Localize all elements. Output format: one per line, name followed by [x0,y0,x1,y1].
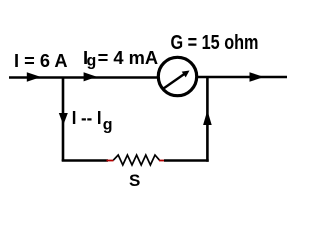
arrowhead output right [250,72,265,82]
svg-text:= 4 mA: = 4 mA [98,47,159,68]
arrowhead current I-Ig downward [59,113,68,125]
wire top-left segment [9,76,158,79]
wire top-right segment [198,76,288,79]
galvanometer needle [164,74,186,89]
resistor S zigzag [113,155,159,165]
svg-text:S: S [129,171,140,190]
wire left vertical branch [62,77,65,161]
svg-text:G = 15 ohm: G = 15 ohm [171,32,259,54]
arrowhead current I left [27,72,41,81]
arrowhead current Ig [84,72,97,81]
svg-text:g: g [87,52,97,69]
galvanometer needle arrowhead [182,71,190,78]
svg-text:g: g [103,116,113,133]
wire right vertical branch [206,77,209,162]
svg-text:I -- I: I -- I [72,108,102,128]
wire bottom segment left of resistor [62,159,108,162]
svg-text:I = 6 A: I = 6 A [14,50,68,71]
galvanometer G circle [158,57,196,95]
wire bottom segment right of resistor [164,159,209,162]
resistor S red lead right [159,160,167,162]
resistor S red lead left [107,160,114,162]
arrowhead upward on right branch [203,110,212,125]
